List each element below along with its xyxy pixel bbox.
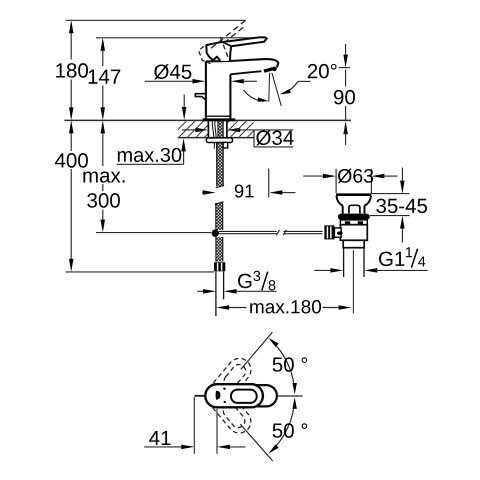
braided hose segment 1 xyxy=(217,143,224,187)
dimension 90 line+arrows xyxy=(339,67,350,69)
label 91 xyxy=(235,184,244,197)
label 400 xyxy=(55,153,65,167)
shank lock piece xyxy=(223,142,228,148)
label 50deg upper xyxy=(273,357,283,371)
dimension 400 vertical line+arrows xyxy=(70,132,72,152)
reference line lever top xyxy=(96,37,262,39)
counter hole right edge xyxy=(226,120,228,137)
drain ball-rod ball xyxy=(337,231,343,235)
top view centerline xyxy=(277,395,303,397)
drain tailpipe centerline xyxy=(352,250,354,313)
counter hole left edge xyxy=(207,120,209,137)
label Ø34 xyxy=(256,130,271,145)
lever solid xyxy=(206,37,266,61)
faucet base plate xyxy=(203,118,236,121)
drain tailpipe left wall xyxy=(343,248,345,277)
drain plug knob xyxy=(349,205,360,213)
drain ball-rod socket xyxy=(334,228,341,237)
reference line bottom (400) xyxy=(66,271,215,273)
dimension G1 1/4 arrows+underline xyxy=(314,269,331,271)
top view screw dots xyxy=(223,388,225,390)
label 147 xyxy=(89,70,98,84)
drain body notched band xyxy=(340,220,367,225)
label G1 1/4 xyxy=(379,252,392,267)
reference line hose end (max.300) xyxy=(96,232,211,234)
pop-up linkage rod xyxy=(219,230,277,232)
drain lower band xyxy=(343,240,364,247)
pop-up rod knob xyxy=(195,94,206,101)
drain tailpipe right wall xyxy=(363,248,365,277)
label Ø45 xyxy=(154,64,169,79)
faucet body bottom shoulder xyxy=(206,115,231,117)
reference line top (handle max height) xyxy=(66,19,246,21)
braided hose segment 3 xyxy=(216,237,223,262)
label Ø63 xyxy=(338,169,352,183)
dimension 35-45 extension lines xyxy=(371,193,409,195)
top view lever outline xyxy=(205,384,263,407)
countertop top line xyxy=(65,119,351,121)
water stream line vertical xyxy=(268,73,271,102)
dashed lever swung down 50deg xyxy=(201,379,256,438)
top view lever inner face xyxy=(231,390,257,403)
drain body main band xyxy=(340,225,367,241)
dimension G3/8 arrows xyxy=(197,290,204,292)
swing ray upper xyxy=(241,332,272,369)
drain flange top rim xyxy=(336,193,371,196)
dimension 35-45 arrows xyxy=(401,168,403,183)
dimension Ø63 arrows xyxy=(303,175,324,177)
angle arc upper 50deg xyxy=(271,340,295,391)
dimension 147 vertical line+arrows xyxy=(102,49,104,66)
braided hose in counter xyxy=(218,121,223,137)
faucet spout top edge xyxy=(206,59,278,67)
label max.30 xyxy=(118,151,132,162)
dimension max.180 arrows xyxy=(216,305,229,310)
dimension 180 vertical line+arrows xyxy=(70,32,72,60)
aerator xyxy=(264,69,273,72)
label 90 xyxy=(334,90,343,105)
label 50deg lower xyxy=(273,423,283,437)
drain flange plate xyxy=(338,214,370,220)
water stream line angled xyxy=(272,73,281,106)
faucet body left wall xyxy=(205,61,207,119)
drain neck left wall xyxy=(342,206,344,214)
label 20deg xyxy=(308,64,317,78)
drain Ø63 extension lines xyxy=(335,169,337,193)
label G3/8 xyxy=(238,274,251,289)
braided hose segment 2 xyxy=(216,203,223,230)
dimension 91 arrows+extension xyxy=(202,192,205,194)
pull rod below nut xyxy=(213,143,215,149)
swing ray lower xyxy=(240,424,272,461)
drain flange taper left xyxy=(336,196,342,206)
dimension 41 extension lines xyxy=(193,397,195,454)
top view body xyxy=(219,385,277,406)
drain ball-rod nut xyxy=(324,225,334,239)
label 20deg leader arcs xyxy=(298,80,311,82)
pull rod in counter xyxy=(212,121,214,137)
label 300 xyxy=(87,193,97,208)
angle arc lower 50deg xyxy=(271,400,295,451)
label 180 xyxy=(56,63,65,77)
label 35-45 xyxy=(376,199,386,214)
hose junction dot xyxy=(212,230,219,237)
lever dashed raised position xyxy=(210,20,246,49)
top view pop-up rod stub xyxy=(195,395,206,397)
label max.30 leader+arrows xyxy=(117,163,184,165)
drain neck right wall xyxy=(364,206,366,214)
label max. xyxy=(83,171,97,182)
faucet body right wall xyxy=(229,74,231,119)
label 41 xyxy=(149,431,159,445)
top view pivot mark xyxy=(216,391,221,400)
dimension max.300 vertical line+arrows xyxy=(102,132,104,167)
dimension 41 arrows xyxy=(144,446,183,448)
faucet spout underside xyxy=(230,71,261,74)
dimension Ø45 arrows xyxy=(145,80,195,82)
label max.180 xyxy=(250,303,263,313)
countertop bottom line xyxy=(178,137,254,139)
drain flange taper right xyxy=(365,196,372,206)
supply hose nut xyxy=(214,262,225,271)
dashed lever swung up 50deg xyxy=(201,354,256,413)
dimension Ø34 arrows+leader xyxy=(182,129,197,131)
G3/8 tube xyxy=(215,271,217,316)
mounting nut xyxy=(206,138,232,143)
